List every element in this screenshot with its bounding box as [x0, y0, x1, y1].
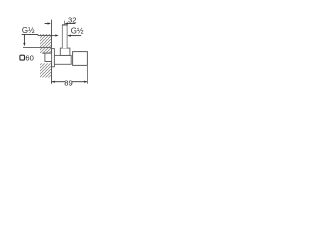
label G1/2 top-left down arrow	[23, 35, 25, 44]
label square-60 symbol	[20, 55, 25, 60]
socket rectangle in wall	[45, 53, 52, 61]
svg-text:60: 60	[25, 53, 33, 62]
svg-text:G½: G½	[71, 27, 84, 36]
outlet pipe	[62, 25, 67, 48]
handle	[73, 52, 88, 66]
wall face line	[51, 20, 53, 84]
wall hatch upper patch	[40, 34, 52, 53]
dimension 89: line right segment	[72, 81, 87, 83]
escutcheon plate	[52, 49, 55, 67]
dimension 89: line left segment	[52, 81, 65, 83]
dimension 32: left arrow	[45, 23, 50, 25]
svg-text:89: 89	[64, 78, 72, 87]
socket top line in wall	[42, 52, 51, 54]
outlet pipe top edge	[62, 24, 67, 26]
label G1/2 top-right leader	[68, 35, 81, 37]
union nut	[60, 48, 70, 55]
svg-text:G½: G½	[22, 26, 35, 35]
label G1/2 top-left leader to valve	[38, 35, 56, 37]
svg-text:32: 32	[68, 15, 76, 24]
label G1/2 top-left underline	[22, 33, 38, 35]
valve body	[54, 55, 71, 64]
label G1/2 top-left leader jog	[37, 34, 39, 35]
dimension 32: centerline extension	[64, 21, 66, 25]
inlet reference line (pointed at by G1/2 down arrow)	[23, 47, 52, 49]
dimension 89: right extension line	[86, 66, 88, 84]
wall hatch lower patch	[40, 63, 52, 77]
dimension 32: right arrow and tail	[66, 23, 76, 25]
